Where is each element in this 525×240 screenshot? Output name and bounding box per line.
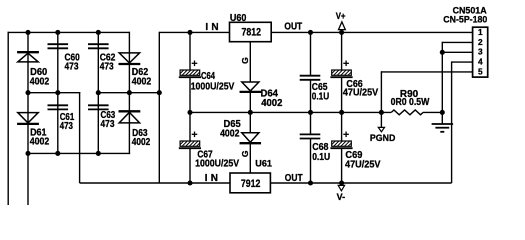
- label CN501A: [453, 5, 487, 15]
- wire pin2 elbow: [442, 42, 472, 113]
- capacitor C69: [326, 132, 360, 149]
- wire mid rail net A: [28, 92, 80, 183]
- node junction ground rail / C65: [308, 110, 313, 115]
- wire U60 IN rail: [159, 31, 229, 33]
- wire bottom rail: [28, 152, 130, 154]
- svg-text:N: N: [211, 22, 218, 33]
- capacitor C66: [326, 61, 360, 78]
- pin 3 label: [478, 47, 483, 57]
- wire V+ rail: [271, 31, 472, 33]
- ground: [432, 112, 454, 131]
- connector CN501A: [473, 27, 488, 77]
- svg-text:4002: 4002: [30, 137, 50, 148]
- node junction bottom rail / C63: [96, 151, 101, 156]
- wire U60 G pin to D64: [249, 42, 251, 82]
- svg-text:CN-5P-180: CN-5P-180: [443, 14, 487, 24]
- label C64 value: [191, 71, 235, 93]
- node junction U61 IN rail / C67: [187, 180, 192, 185]
- node junction top rail / C62: [96, 30, 101, 35]
- svg-text:2: 2: [478, 37, 483, 47]
- svg-text:OUT: OUT: [284, 22, 302, 33]
- wire C68 top: [310, 112, 312, 134]
- terminal V-: [337, 185, 346, 202]
- svg-text:PGND: PGND: [370, 133, 396, 143]
- label IN pin U61: [205, 173, 218, 184]
- capacitor C62: [88, 44, 109, 48]
- wire C64 to ground rail: [189, 78, 191, 141]
- capacitor C60: [48, 44, 69, 48]
- svg-text:1000U/25V: 1000U/25V: [191, 81, 235, 92]
- svg-text:I: I: [205, 22, 208, 33]
- wire D65 to U61 G pin: [249, 143, 251, 173]
- svg-text:OUT: OUT: [285, 173, 303, 184]
- node junction bottom rail / D61: [25, 151, 30, 156]
- wire net B riser: [158, 32, 160, 183]
- node junction ground rail / D64: [248, 110, 253, 115]
- label U61: [255, 158, 272, 169]
- svg-text:473: 473: [65, 62, 79, 73]
- svg-text:5: 5: [478, 66, 483, 76]
- svg-text:V+: V+: [336, 11, 346, 21]
- label C63 value: [101, 110, 116, 130]
- wire C65 bottom: [310, 80, 312, 113]
- wire ground rail to D65: [249, 112, 251, 132]
- node junction V+ rail / C66: [339, 30, 344, 35]
- node junction ground rail / C66: [339, 110, 344, 115]
- pin G label U61: [240, 150, 250, 157]
- label C66 value: [343, 79, 379, 99]
- label D61 value: [30, 127, 50, 147]
- node junction OUT rail / C69: [339, 180, 344, 185]
- node junction net B riser: [157, 90, 162, 95]
- wire pin3: [442, 51, 472, 53]
- label C68 value: [312, 142, 330, 163]
- node junction IN rail / C64: [187, 30, 192, 35]
- label D62 value: [132, 67, 152, 87]
- svg-text:C64: C64: [201, 71, 215, 82]
- capacitor C67: [175, 132, 209, 149]
- wire C60/C61 column: [57, 32, 59, 153]
- op-amp U61 regulator 7912: [230, 173, 270, 193]
- svg-text:47U/25V: 47U/25V: [345, 159, 381, 170]
- svg-text:1000U/25V: 1000U/25V: [195, 159, 239, 170]
- wire C64 column top: [189, 32, 191, 70]
- op-amp U60 regulator 7812: [230, 22, 272, 41]
- node junction top rail / C60: [55, 30, 60, 35]
- node junction bottom rail / C61: [55, 151, 60, 156]
- node junction mid rail / C63: [96, 90, 101, 95]
- wire U61 OUT rail: [270, 182, 451, 184]
- svg-text:1: 1: [478, 27, 483, 37]
- node junction OUT rail / C68: [308, 180, 313, 185]
- capacitor C63: [88, 105, 109, 109]
- label D60 value: [30, 67, 50, 87]
- svg-text:4002: 4002: [30, 76, 50, 87]
- label OUT pin U61: [285, 173, 303, 184]
- svg-text:0.1U: 0.1U: [312, 92, 329, 103]
- svg-text:0.1U: 0.1U: [312, 152, 330, 163]
- svg-text:4002: 4002: [220, 128, 240, 139]
- node junction V+ rail / C65: [308, 30, 313, 35]
- wire pin5 elbow: [381, 71, 472, 112]
- pin G label U60: [240, 57, 250, 64]
- wire top rail segment: [28, 31, 129, 33]
- svg-text:473: 473: [60, 121, 74, 132]
- wire left AC rail: [8, 32, 29, 205]
- node junction R90 / ground: [440, 110, 445, 115]
- label C65 value: [312, 82, 329, 103]
- wire C62/C63 column: [97, 32, 99, 153]
- wire C68 bottom: [310, 139, 312, 184]
- label IN pin U60: [205, 22, 218, 33]
- wire PGND stub: [380, 112, 382, 127]
- wire U61 IN rail: [80, 182, 230, 184]
- wire C69 top: [341, 112, 343, 141]
- node junction ground rail / PGND: [379, 110, 384, 115]
- label CN-5P-180: [443, 14, 487, 24]
- svg-text:4002: 4002: [261, 98, 283, 109]
- wire C67 to U61 IN rail: [189, 149, 191, 183]
- wire D62/D63 column: [128, 32, 130, 154]
- wire ground rail: [190, 111, 391, 113]
- wire C65 top: [310, 32, 312, 75]
- svg-text:7812: 7812: [242, 27, 262, 39]
- pin 2 label: [478, 37, 483, 47]
- label C61 value: [60, 112, 75, 132]
- pin 5 label: [478, 66, 483, 76]
- label C60 value: [65, 52, 81, 72]
- node junction pin3: [440, 50, 445, 55]
- label D64 value: [261, 88, 283, 109]
- diode D60: [17, 52, 39, 62]
- svg-text:N: N: [211, 173, 218, 184]
- node junction top rail / D60: [25, 30, 30, 35]
- diode D61: [17, 113, 39, 124]
- label D63 value: [132, 128, 151, 148]
- label U60: [230, 13, 247, 24]
- label C62 value: [100, 52, 116, 72]
- node junction mid rail / D63: [127, 90, 132, 95]
- label R90 value: [391, 89, 430, 108]
- svg-text:7912: 7912: [241, 178, 261, 190]
- label C67 value: [195, 150, 239, 170]
- svg-text:473: 473: [101, 119, 115, 130]
- svg-text:3: 3: [478, 47, 483, 57]
- svg-text:I: I: [205, 173, 208, 184]
- diode D63: [119, 111, 141, 123]
- label C69 value: [345, 150, 381, 170]
- svg-text:G: G: [240, 150, 250, 157]
- svg-text:4002: 4002: [132, 137, 151, 148]
- wire C69 bottom: [341, 149, 343, 183]
- node junction mid rail / D61: [25, 90, 30, 95]
- power PGND terminal: [370, 127, 396, 143]
- wire mid rail net B: [98, 92, 159, 94]
- svg-text:4002: 4002: [132, 76, 152, 87]
- svg-text:473: 473: [100, 62, 114, 73]
- svg-text:47U/25V: 47U/25V: [343, 88, 379, 99]
- capacitor C68: [300, 134, 321, 138]
- wire pin4 elbow: [452, 61, 473, 183]
- diode D62: [119, 53, 141, 64]
- capacitor C65: [300, 76, 321, 80]
- svg-text:0R0 0.5W: 0R0 0.5W: [391, 97, 430, 108]
- wire C66 top: [341, 32, 343, 70]
- diode D64: [240, 82, 261, 92]
- svg-text:V-: V-: [337, 192, 346, 202]
- svg-text:4: 4: [478, 57, 483, 67]
- svg-text:U61: U61: [255, 158, 272, 169]
- label OUT pin U60: [284, 22, 302, 33]
- capacitor C61: [48, 105, 69, 109]
- terminal V+: [336, 11, 346, 29]
- diode D65: [240, 133, 261, 143]
- capacitor C64: [175, 61, 209, 78]
- wire D60/D61 column: [27, 32, 29, 205]
- wire C66 bottom: [341, 78, 343, 113]
- pin 1 label: [478, 27, 483, 37]
- wire D64 to ground rail: [249, 92, 251, 113]
- pin 4 label: [478, 57, 483, 67]
- svg-text:U60: U60: [230, 13, 247, 24]
- node junction ground rail / C64: [187, 110, 192, 115]
- resistor R90: [391, 110, 442, 115]
- label D65 value: [220, 119, 241, 139]
- svg-text:G: G: [240, 57, 250, 64]
- node junction mid rail / C61: [55, 90, 60, 95]
